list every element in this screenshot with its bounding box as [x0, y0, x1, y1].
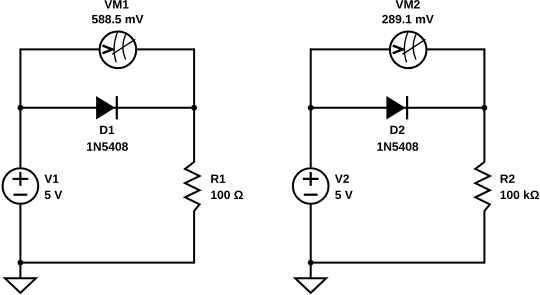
- diode D1: [97, 96, 117, 119]
- wire bottom horizontal: [311, 262, 485, 264]
- label V2: [335, 175, 349, 183]
- wire top-left segment (node between V1+ and VM1): [20, 48, 99, 50]
- wire left vertical upper (top node to V1): [19, 48, 21, 167]
- wire top-right segment (VM1 to R1 top): [137, 48, 194, 50]
- resistor R2: [475, 162, 490, 211]
- node junction right of diode branch: [482, 105, 488, 111]
- node junction left of diode branch: [18, 105, 24, 111]
- wire right vertical lower (R2 to bottom): [483, 211, 485, 264]
- ground (right circuit): [295, 278, 326, 293]
- label R2: [501, 175, 515, 183]
- wire top-left segment (node between V2+ and VM2): [311, 48, 390, 50]
- node junction left of diode branch: [308, 105, 314, 111]
- voltmeter VM1: [100, 32, 137, 69]
- wire right vertical upper (top to R2): [483, 48, 485, 162]
- label 5 V (left): [45, 191, 63, 199]
- label V1: [44, 175, 58, 183]
- node junction bottom-left (ground node): [308, 260, 314, 266]
- voltage source V2: [293, 168, 329, 204]
- wire left vertical upper (top node to V2): [310, 48, 312, 167]
- diode D2: [387, 96, 407, 119]
- label 5 V (right): [335, 191, 353, 199]
- wire bottom horizontal: [20, 262, 194, 264]
- label 588.5 mV: [92, 15, 143, 24]
- label 1N5408 (right): [377, 142, 418, 151]
- voltmeter VM2: [390, 32, 427, 69]
- label D2: [390, 126, 404, 134]
- voltage source V1: [3, 168, 39, 204]
- wire right vertical upper (top to R1): [193, 48, 195, 162]
- wire top-right segment (VM2 to R2 top): [427, 48, 484, 50]
- label VM1: [104, 0, 128, 8]
- label VM2: [396, 0, 420, 8]
- label 289.1 mV: [382, 15, 434, 24]
- label 100 kohm: [501, 190, 539, 199]
- wire middle horizontal (diode branch): [20, 107, 194, 109]
- label R1: [211, 175, 225, 183]
- label 100 ohm: [211, 191, 243, 200]
- node junction right of diode branch: [191, 105, 197, 111]
- wire middle horizontal (diode branch): [311, 107, 485, 109]
- label 1N5408 (left): [87, 142, 128, 151]
- ground (left circuit): [5, 278, 36, 293]
- resistor R1: [185, 162, 200, 211]
- wire right vertical lower (R1 to bottom): [193, 211, 195, 264]
- wire left vertical lower (V1 to ground node): [19, 205, 21, 279]
- label D1: [100, 126, 114, 134]
- wire left vertical lower (V2 to ground node): [310, 205, 312, 279]
- node junction bottom-left (ground node): [18, 260, 24, 266]
